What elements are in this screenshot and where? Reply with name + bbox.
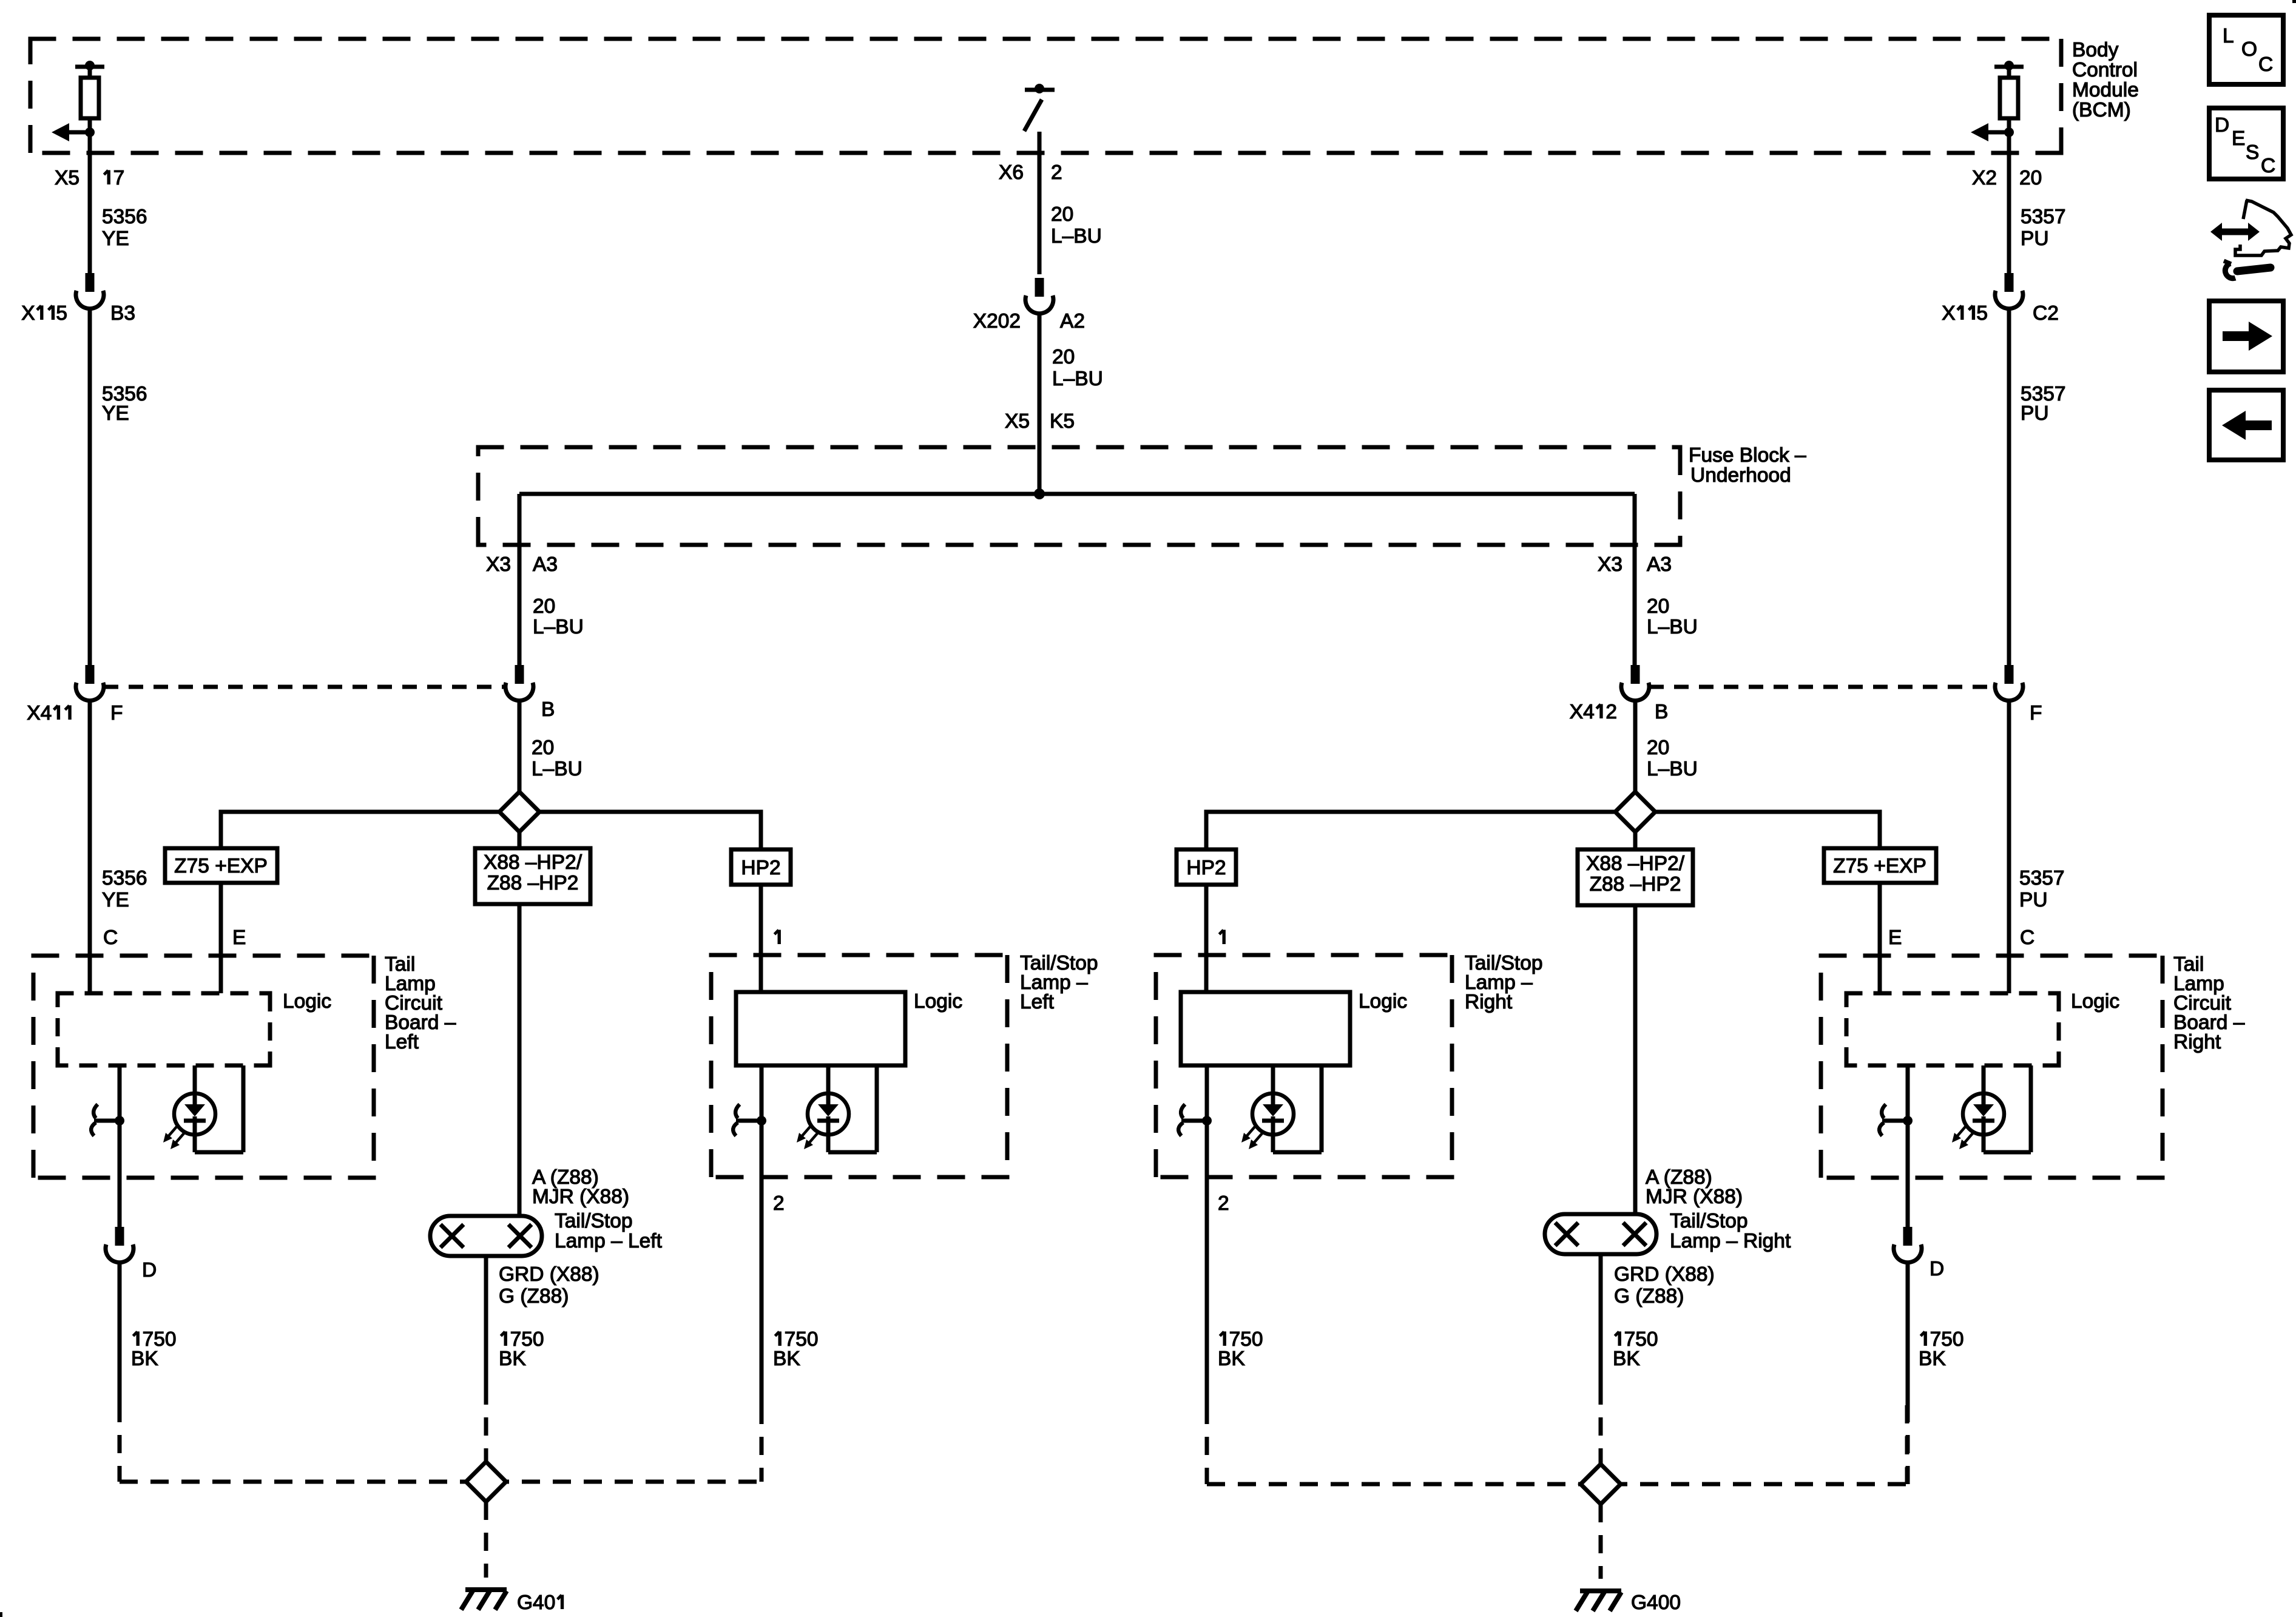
svg-text:B: B	[541, 698, 555, 721]
svg-text:Logic: Logic	[914, 990, 962, 1013]
svg-text:D: D	[142, 1259, 157, 1281]
svg-text:20: 20	[1051, 203, 1073, 226]
svg-text:2: 2	[1606, 701, 1617, 723]
svg-text:MJR (X88): MJR (X88)	[532, 1186, 629, 1208]
svg-text:S: S	[2246, 141, 2259, 164]
svg-text:Control: Control	[2072, 59, 2138, 81]
svg-text:X2: X2	[1972, 167, 1997, 189]
svg-text:X: X	[1942, 302, 1955, 325]
svg-text:Logic: Logic	[1359, 990, 1407, 1013]
svg-text:L–BU: L–BU	[1647, 616, 1698, 638]
svg-text:5356: 5356	[102, 867, 147, 890]
svg-text:C: C	[103, 927, 118, 949]
svg-text:Logic: Logic	[283, 990, 331, 1013]
svg-text:HP2: HP2	[741, 857, 780, 879]
svg-text:YE: YE	[102, 402, 129, 425]
svg-text:Right: Right	[1465, 991, 1513, 1013]
svg-text:A3: A3	[1647, 553, 1672, 576]
svg-text:B: B	[1655, 701, 1668, 723]
svg-text:5357: 5357	[2021, 206, 2066, 228]
svg-text:L–BU: L–BU	[1647, 758, 1698, 780]
svg-text:B3: B3	[110, 302, 135, 325]
svg-text:YE: YE	[102, 228, 129, 250]
svg-text:Module: Module	[2072, 79, 2139, 101]
svg-text:2: 2	[1051, 161, 1062, 184]
svg-text:L: L	[2223, 25, 2234, 47]
svg-text:Right: Right	[2173, 1031, 2221, 1053]
svg-text:X6: X6	[999, 161, 1024, 184]
svg-text:X3: X3	[486, 553, 511, 576]
svg-text:Z88 –HP2: Z88 –HP2	[487, 872, 579, 894]
svg-text:F: F	[110, 702, 123, 724]
svg-text:E: E	[2232, 127, 2245, 150]
svg-text:C: C	[2020, 927, 2034, 949]
svg-text:BK: BK	[1919, 1348, 1946, 1370]
svg-text:Tail/Stop: Tail/Stop	[555, 1210, 633, 1232]
svg-text:GRD (X88): GRD (X88)	[499, 1263, 599, 1286]
svg-text:20: 20	[1647, 737, 1669, 759]
svg-text:GRD (X88): GRD (X88)	[1614, 1263, 1715, 1286]
svg-text:G (Z88): G (Z88)	[1614, 1285, 1684, 1308]
svg-text:C: C	[2258, 53, 2273, 76]
svg-text:X5: X5	[55, 167, 79, 189]
svg-text:BK: BK	[1218, 1348, 1245, 1370]
svg-text:Left: Left	[1020, 991, 1055, 1013]
svg-text:Z75 +EXP: Z75 +EXP	[1833, 855, 1926, 877]
svg-text:BK: BK	[499, 1348, 526, 1370]
svg-text:BK: BK	[1613, 1348, 1640, 1370]
svg-text:BK: BK	[131, 1348, 158, 1370]
svg-text:D: D	[1930, 1258, 1944, 1280]
svg-text:X88 –HP2/: X88 –HP2/	[1586, 852, 1685, 875]
svg-text:Z75 +EXP: Z75 +EXP	[174, 855, 268, 877]
svg-text:Left: Left	[385, 1031, 419, 1053]
svg-text:YE: YE	[102, 889, 129, 911]
svg-text:L–BU: L–BU	[1052, 368, 1103, 390]
svg-text:MJR (X88): MJR (X88)	[1646, 1186, 1743, 1208]
svg-text:A3: A3	[533, 553, 558, 576]
svg-text:X202: X202	[973, 310, 1021, 333]
svg-text:L–BU: L–BU	[533, 616, 584, 638]
svg-text:L–BU: L–BU	[1051, 225, 1102, 248]
svg-text:X3: X3	[1598, 553, 1622, 576]
svg-text:2: 2	[773, 1192, 785, 1215]
svg-text:Logic: Logic	[2071, 990, 2119, 1013]
svg-text:Body: Body	[2072, 39, 2119, 61]
svg-text:E: E	[1888, 927, 1902, 949]
svg-text:X4: X4	[27, 702, 52, 724]
svg-text:G40: G40	[517, 1592, 555, 1614]
svg-text:C2: C2	[2033, 302, 2059, 325]
svg-text:PU: PU	[2021, 402, 2049, 425]
svg-text:Tail/Stop: Tail/Stop	[1670, 1210, 1748, 1232]
svg-text:O: O	[2241, 38, 2257, 61]
svg-text:Lamp – Right: Lamp – Right	[1670, 1230, 1791, 1252]
svg-text:A2: A2	[1060, 310, 1085, 333]
svg-text:X5: X5	[1005, 410, 1030, 433]
svg-text:K5: K5	[1050, 410, 1075, 433]
svg-text:20: 20	[533, 595, 555, 618]
svg-text:F: F	[2030, 702, 2042, 724]
svg-text:5356: 5356	[102, 206, 147, 228]
svg-text:X: X	[21, 302, 35, 325]
svg-text:20: 20	[532, 737, 554, 759]
svg-text:G (Z88): G (Z88)	[499, 1285, 569, 1308]
svg-text:BK: BK	[773, 1348, 800, 1370]
svg-text:X4: X4	[1570, 701, 1595, 723]
svg-text:7: 7	[113, 167, 125, 189]
svg-text:20: 20	[1647, 595, 1669, 618]
svg-text:L–BU: L–BU	[532, 758, 582, 780]
svg-text:(BCM): (BCM)	[2072, 99, 2131, 121]
svg-text:Lamp – Left: Lamp – Left	[555, 1230, 663, 1252]
svg-text:20: 20	[1052, 346, 1075, 368]
svg-text:X88 –HP2/: X88 –HP2/	[484, 851, 582, 874]
svg-text:D: D	[2215, 114, 2229, 137]
svg-text:2: 2	[1218, 1192, 1229, 1215]
svg-text:5: 5	[56, 302, 67, 325]
svg-text:Fuse Block –: Fuse Block –	[1689, 444, 1806, 467]
svg-text:PU: PU	[2019, 889, 2048, 911]
svg-text:Z88 –HP2: Z88 –HP2	[1590, 873, 1681, 896]
svg-text:5357: 5357	[2019, 867, 2065, 890]
svg-text:G400: G400	[1631, 1592, 1681, 1614]
svg-text:Underhood: Underhood	[1690, 464, 1791, 487]
svg-text:5: 5	[1976, 302, 1988, 325]
svg-text:20: 20	[2019, 167, 2042, 189]
svg-text:E: E	[232, 927, 246, 949]
svg-text:HP2: HP2	[1186, 857, 1226, 879]
svg-text:C: C	[2261, 155, 2275, 177]
svg-text:PU: PU	[2021, 228, 2049, 250]
